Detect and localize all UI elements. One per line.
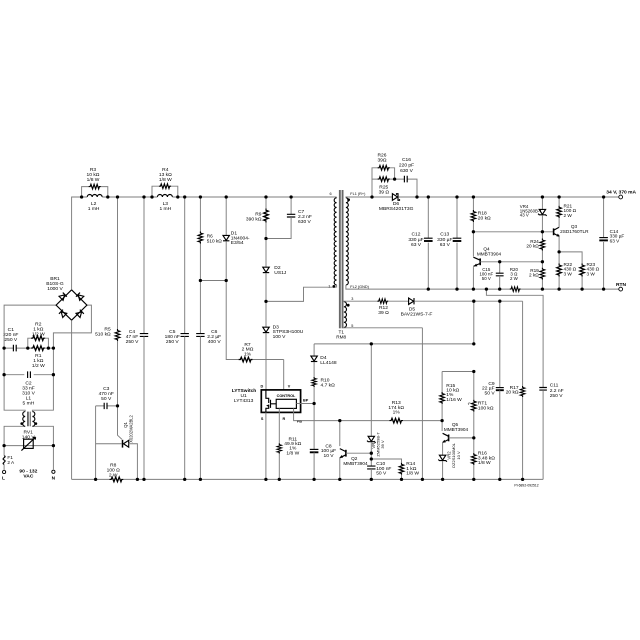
wire emitter node to R23 bbox=[559, 252, 582, 264]
transistor Q3 2SD1760TLR bbox=[553, 228, 555, 235]
thyristor Q1 X0202MA2BL2 bbox=[118, 406, 122, 439]
junction R9/C7 bottom bbox=[264, 237, 267, 240]
junction R6 bottom bbox=[199, 279, 202, 282]
svg-text:C11: C11 bbox=[550, 383, 559, 389]
svg-text:20 kΩ: 20 kΩ bbox=[526, 244, 539, 249]
bridge rectifier BR1 B10S-G 1000V bbox=[56, 290, 87, 320]
U1 internal MOSFET bbox=[266, 390, 276, 413]
svg-text:1/8 W: 1/8 W bbox=[478, 460, 491, 466]
U1 controller block bbox=[276, 399, 296, 408]
svg-text:2.2 nF: 2.2 nF bbox=[550, 388, 564, 394]
svg-text:1: 1 bbox=[328, 285, 330, 289]
junction C2 right bbox=[52, 373, 55, 376]
junction snubber left bbox=[370, 195, 373, 198]
junction FB line Q2 collector bbox=[338, 419, 341, 422]
capacitor C1 220nF bbox=[4, 347, 28, 349]
junction C4 on rail bbox=[142, 478, 145, 481]
resistor R5 510k bbox=[117, 197, 119, 329]
wire bus L3 to transformer pin 6 bbox=[178, 196, 337, 198]
wire L node up to choke bbox=[4, 426, 25, 445]
junction C9 on rail bbox=[498, 478, 501, 481]
wire clamp node to transformer pin 1 bbox=[266, 287, 337, 301]
svg-text:1%: 1% bbox=[393, 410, 401, 416]
svg-text:1/8 W: 1/8 W bbox=[159, 177, 172, 183]
phase dot bias winding bbox=[347, 304, 350, 307]
diode D4 LL4148 bbox=[313, 344, 315, 356]
svg-text:39Ω: 39Ω bbox=[377, 158, 386, 164]
transformer T1 core bbox=[339, 190, 341, 328]
svg-text:400 V: 400 V bbox=[208, 339, 222, 345]
svg-text:U1: U1 bbox=[240, 393, 247, 399]
svg-text:39 Ω: 39 Ω bbox=[378, 310, 389, 316]
junction D1 bottom bbox=[225, 279, 228, 282]
svg-text:2 kΩ: 2 kΩ bbox=[529, 273, 539, 278]
junction C9 top bbox=[498, 300, 501, 303]
svg-text:1 mH: 1 mH bbox=[88, 206, 100, 212]
svg-text:3 W: 3 W bbox=[587, 271, 596, 276]
junction C1 left bbox=[2, 346, 5, 349]
junction Q1 anode on bottom rail bbox=[136, 478, 139, 481]
svg-text:34 V, 370 mA: 34 V, 370 mA bbox=[606, 189, 636, 195]
svg-text:Q1: Q1 bbox=[123, 422, 128, 428]
svg-text:VAC: VAC bbox=[23, 474, 33, 480]
junction bus L3 right bbox=[176, 195, 179, 198]
resistor R15 10k 1% 1/16W bbox=[441, 372, 443, 393]
svg-text:LYT4313: LYT4313 bbox=[234, 398, 254, 404]
junction VR4 bottom bbox=[541, 230, 544, 233]
junction R24 bottom base line bbox=[541, 260, 544, 263]
junction RV1 left bbox=[2, 444, 5, 447]
svg-text:R: R bbox=[283, 417, 286, 421]
svg-text:2SD1760TLR: 2SD1760TLR bbox=[560, 229, 589, 234]
svg-text:L: L bbox=[2, 476, 5, 482]
wire bridge DC- down to bottom rail bbox=[71, 320, 73, 479]
capacitor C3 470nF 50V bbox=[96, 405, 118, 407]
wire N node up to choke bbox=[32, 426, 53, 445]
wire D1 junction down to R7 bbox=[226, 281, 238, 360]
svg-text:10 V: 10 V bbox=[323, 453, 334, 459]
resistor R10 4.7k bbox=[312, 377, 317, 387]
wire bias winding return to bottom rail bbox=[421, 328, 423, 480]
svg-text:3 W: 3 W bbox=[564, 271, 573, 276]
capacitor C4 47nF 250V bbox=[143, 197, 145, 334]
junction bus L2 left bbox=[80, 195, 83, 198]
svg-text:V: V bbox=[288, 385, 291, 389]
diode D2 US1J bbox=[265, 239, 267, 268]
wire R7 to U1 V pin bbox=[283, 360, 285, 390]
svg-text:390 kΩ: 390 kΩ bbox=[246, 216, 262, 222]
svg-text:C13: C13 bbox=[440, 232, 449, 238]
wire left column C2 to C1 bbox=[3, 348, 5, 375]
capacitor C9 22uF 50V bbox=[499, 301, 501, 387]
svg-text:39 Ω: 39 Ω bbox=[379, 189, 390, 195]
RTN terminal bbox=[619, 287, 623, 291]
svg-text:630 V: 630 V bbox=[298, 219, 312, 225]
transistor Q4 MMBT3904 bbox=[472, 232, 474, 257]
junction N column bbox=[52, 346, 55, 349]
primary return rail bbox=[72, 478, 543, 480]
wire R1R2 to N column and bridge AC2 bbox=[48, 305, 91, 348]
wire bridge DC+ up to bus bbox=[72, 197, 81, 290]
svg-text:N: N bbox=[52, 475, 56, 481]
wire Q4 base line bbox=[480, 261, 542, 263]
resistor R21 100ohm 2W bbox=[557, 195, 560, 198]
junction R22 on RTN rail bbox=[557, 287, 560, 290]
resistor R17 20k bbox=[522, 301, 524, 386]
svg-text:LYTSwitch: LYTSwitch bbox=[232, 388, 257, 394]
terminal L (AC line input) bbox=[3, 470, 6, 473]
junction bus L2 right bbox=[106, 195, 109, 198]
junction R17 on rail bbox=[521, 478, 524, 481]
wire R6 to D1 junction bbox=[200, 280, 226, 282]
capacitor C5 180nF 250V bbox=[184, 197, 186, 334]
svg-text:1/8 W: 1/8 W bbox=[286, 450, 299, 456]
svg-text:1/2 W: 1/2 W bbox=[32, 331, 45, 337]
resistor R22 430ohm 3W bbox=[558, 252, 560, 264]
wire choke left top to filter column bbox=[4, 375, 25, 412]
svg-text:5 mH: 5 mH bbox=[23, 400, 35, 406]
junction bus D1 column bbox=[225, 195, 228, 198]
wire FB line to R13 bbox=[340, 420, 390, 422]
thermistor RT1 100k bbox=[473, 372, 475, 400]
svg-text:250 V: 250 V bbox=[166, 339, 180, 345]
svg-text:330 µF: 330 µF bbox=[408, 237, 423, 243]
junction S pin on rail bbox=[264, 478, 267, 481]
junction C11 link on RTN rail bbox=[485, 287, 488, 290]
capacitor C10 100nF 50V bbox=[367, 466, 375, 469]
svg-text:1/16 W: 1/16 W bbox=[446, 397, 462, 403]
svg-text:1/8 W: 1/8 W bbox=[406, 471, 419, 477]
svg-text:140 V: 140 V bbox=[22, 434, 36, 440]
snubber R25 39ohm bbox=[372, 178, 395, 180]
junction R16 on rail bbox=[472, 478, 475, 481]
resistor R6 510k bbox=[199, 197, 201, 232]
resistor R20 3ohm 2W (in RTN rail) bbox=[510, 287, 521, 292]
svg-text:PI-6892-092512: PI-6892-092512 bbox=[514, 484, 538, 488]
svg-text:90 - 132: 90 - 132 bbox=[19, 468, 37, 474]
svg-text:FL1 (R+): FL1 (R+) bbox=[350, 192, 366, 196]
junction C15 top bbox=[498, 260, 501, 263]
resistor R8 100ohm 2W bbox=[109, 477, 123, 482]
capacitor C12 330uF 63V bbox=[427, 195, 430, 198]
wire bus L2 to L3 bbox=[108, 196, 152, 198]
svg-text:MMBT3904: MMBT3904 bbox=[343, 461, 368, 466]
svg-text:250 V: 250 V bbox=[4, 337, 18, 343]
junction bus C4 column bbox=[142, 195, 145, 198]
resistor R7 2M 1% bbox=[239, 357, 253, 362]
diode D3 STPS3H100U 100V bbox=[265, 301, 267, 327]
svg-text:1/2 W: 1/2 W bbox=[32, 363, 45, 369]
svg-text:20 kΩ: 20 kΩ bbox=[506, 390, 519, 396]
svg-text:RM8: RM8 bbox=[336, 335, 346, 340]
svg-text:10 V: 10 V bbox=[456, 451, 461, 460]
resistor R12 39ohm bbox=[377, 299, 388, 304]
svg-text:5: 5 bbox=[351, 324, 353, 328]
terminal N (AC neutral input) bbox=[52, 470, 55, 473]
svg-text:1%: 1% bbox=[244, 351, 252, 357]
junction R11 on rail bbox=[278, 478, 281, 481]
varistor RV1 140V bbox=[4, 445, 53, 447]
resistor R18 20k bbox=[472, 195, 475, 198]
svg-text:50 V: 50 V bbox=[485, 390, 496, 396]
capacitor C8 100uF 10V bbox=[313, 404, 315, 450]
wire U1 S pin to bottom rail bbox=[265, 412, 267, 479]
capacitor C6 2.2uF 400V bbox=[199, 281, 201, 334]
svg-text:2 W: 2 W bbox=[510, 276, 519, 281]
resistor R11 49.9k 1% 1/8W (R pin) bbox=[278, 408, 280, 443]
svg-text:FB: FB bbox=[297, 419, 302, 423]
junction bus R6 column bbox=[199, 195, 202, 198]
wire C3 left to cathode rail bbox=[95, 406, 97, 480]
junction R1R2 left bbox=[26, 346, 29, 349]
resistor R23 430ohm 3W bbox=[580, 263, 585, 276]
capacitor C14 330uF 63V bbox=[602, 195, 605, 198]
junction Q5 base node bbox=[472, 436, 475, 439]
junction bias rail tap bbox=[472, 300, 475, 303]
phase dot primary bbox=[333, 285, 336, 288]
svg-text:2 W: 2 W bbox=[109, 473, 118, 479]
junction bus L3 left bbox=[150, 195, 153, 198]
resistor R9 390k bbox=[265, 197, 267, 209]
svg-text:250 V: 250 V bbox=[126, 339, 140, 345]
svg-text:S: S bbox=[261, 417, 264, 421]
wire Q2 base to VR1 node bbox=[346, 452, 371, 454]
fuse F1 2A bbox=[3, 464, 5, 470]
wire R15 top link bbox=[442, 371, 474, 373]
junction C6 on rail bbox=[199, 478, 202, 481]
svg-text:BAV21WS-7-F: BAV21WS-7-F bbox=[401, 311, 433, 317]
svg-text:E3/54: E3/54 bbox=[231, 240, 244, 246]
IC U1 LYT4313 body bbox=[261, 390, 300, 413]
junction cathode node on bottom rail bbox=[94, 478, 97, 481]
svg-text:43 V: 43 V bbox=[520, 213, 529, 218]
junction C3 right / gate node bbox=[116, 404, 119, 407]
svg-text:63 V: 63 V bbox=[610, 238, 621, 243]
svg-text:39 V: 39 V bbox=[380, 440, 385, 449]
resistor R14 1k 1/8W bbox=[371, 459, 401, 463]
wire N terminal to RV1 node bbox=[52, 446, 54, 470]
junction bias return on rail bbox=[421, 478, 424, 481]
svg-text:1 mH: 1 mH bbox=[159, 206, 171, 212]
resistor R2 1k 1/2W (parallel branch) bbox=[28, 338, 49, 348]
zener VR2 DZ2S100M0L 10V bbox=[439, 455, 445, 460]
phase dot L1 right bbox=[35, 422, 38, 425]
junction Q4 emitter on RTN rail bbox=[472, 287, 475, 290]
svg-text:1/8 W: 1/8 W bbox=[87, 177, 100, 183]
output terminal 34V 370mA bbox=[619, 195, 623, 199]
resistor R4 13k 1/8W (parallel with L3) bbox=[152, 186, 178, 197]
junction VR1 to R14 branch bbox=[370, 457, 373, 460]
svg-text:MMBT3904: MMBT3904 bbox=[477, 251, 502, 256]
svg-text:MBRS4201T3G: MBRS4201T3G bbox=[379, 206, 414, 212]
junction bus R5 column bbox=[116, 195, 119, 198]
wire bias line down to bias rail bbox=[473, 301, 475, 344]
junction R18 bottom bbox=[472, 230, 475, 233]
svg-text:50 V: 50 V bbox=[482, 276, 491, 281]
resistor R24 20k bbox=[540, 239, 545, 251]
junction bus C7 column bbox=[289, 195, 292, 198]
junction R14 on rail bbox=[400, 478, 403, 481]
svg-text:100 kΩ: 100 kΩ bbox=[478, 406, 494, 412]
svg-text:220 pF: 220 pF bbox=[399, 163, 414, 169]
svg-text:250 V: 250 V bbox=[550, 393, 564, 399]
junction D6 output bbox=[415, 195, 418, 198]
svg-text:6: 6 bbox=[329, 192, 331, 196]
resistor R3 10k 1/8W (parallel with L2) bbox=[82, 187, 108, 197]
transformer T1 primary winding pin6-pin1 bbox=[334, 198, 336, 285]
junction R23 on RTN rail bbox=[580, 287, 583, 290]
wire N column C2 to R1 node bbox=[52, 348, 54, 375]
svg-text:MMBT3904: MMBT3904 bbox=[444, 427, 469, 432]
capacitor C7 2.2nF 630V bbox=[290, 197, 292, 214]
svg-text:C16: C16 bbox=[402, 157, 411, 163]
junction C15 on RTN rail bbox=[498, 287, 501, 290]
svg-text:630 V: 630 V bbox=[400, 168, 414, 174]
transformer T1 secondary winding FL1-FL2 bbox=[346, 198, 348, 285]
svg-text:50 V: 50 V bbox=[376, 471, 387, 477]
junction bus C5 column bbox=[183, 195, 186, 198]
junction C2 left bbox=[2, 373, 5, 376]
junction bias rail corner bbox=[472, 342, 475, 345]
junction C5 on rail bbox=[183, 478, 186, 481]
svg-text:20 kΩ: 20 kΩ bbox=[478, 215, 491, 221]
svg-text:1000 V: 1000 V bbox=[47, 286, 63, 292]
junction FB line to R15/Q5 bbox=[440, 419, 443, 422]
svg-text:RTN: RTN bbox=[616, 282, 627, 288]
transformer T1 bias winding pin3-pin5 bbox=[344, 302, 347, 328]
svg-text:US1J: US1J bbox=[274, 270, 287, 276]
bias rail wire bbox=[314, 343, 474, 345]
inductor L3 1mH bbox=[157, 195, 172, 198]
svg-text:4.7 kΩ: 4.7 kΩ bbox=[321, 382, 336, 388]
junction R1R2 right bbox=[47, 346, 50, 349]
svg-text:100 V: 100 V bbox=[273, 334, 287, 340]
common-mode choke L1 5mH bbox=[23, 412, 25, 427]
junction clamp node to primary bbox=[264, 300, 267, 303]
junction RV1 right bbox=[52, 444, 55, 447]
wire left column to bridge AC1 bbox=[4, 305, 56, 348]
junction C10 on rail bbox=[370, 478, 373, 481]
svg-text:t°: t° bbox=[468, 401, 471, 406]
capacitor C15 100nF 50V bbox=[499, 262, 501, 273]
junction VR2 on rail bbox=[441, 478, 444, 481]
junction Q3 emitter node bbox=[557, 250, 560, 253]
svg-text:510 kΩ: 510 kΩ bbox=[207, 239, 222, 244]
transistor Q2 MMBT3904 bbox=[339, 421, 341, 447]
snubber R26 39ohm bbox=[372, 168, 395, 197]
resistor R19 2k bbox=[540, 268, 545, 280]
svg-text:FL2 (GND): FL2 (GND) bbox=[350, 285, 369, 289]
inductor L2 1mH bbox=[87, 195, 102, 198]
svg-text:510 kΩ: 510 kΩ bbox=[95, 332, 111, 338]
svg-text:3: 3 bbox=[351, 297, 353, 301]
sense line R18 to Q3 base bbox=[473, 231, 553, 233]
phase dot L1 left bbox=[20, 422, 23, 425]
svg-text:330 µF: 330 µF bbox=[437, 237, 452, 243]
junction R19 on RTN rail bbox=[541, 287, 544, 290]
svg-text:2 A: 2 A bbox=[7, 460, 15, 465]
diode D6 MBRS4201T3G bbox=[372, 196, 392, 198]
diode D5 BAV21WS-7-F bbox=[409, 298, 414, 304]
output bus wire bbox=[417, 196, 619, 198]
wire Q5 base to RT1/R16 node bbox=[449, 437, 474, 439]
svg-text:C12: C12 bbox=[412, 232, 421, 238]
wire U1 FB pin bbox=[294, 408, 340, 420]
svg-text:50 V: 50 V bbox=[101, 396, 112, 402]
junction bus R9 column bbox=[264, 195, 267, 198]
svg-text:2 W: 2 W bbox=[564, 213, 573, 218]
svg-text:63 V: 63 V bbox=[411, 242, 422, 248]
svg-text:LL4148: LL4148 bbox=[320, 360, 337, 366]
junction C8 on rail bbox=[312, 478, 315, 481]
zener VR1 ZMM5259B-7 39V bbox=[370, 342, 373, 345]
svg-text:X0202MA2BL2: X0202MA2BL2 bbox=[129, 415, 134, 443]
zener VR4 1N5260B-T 43V bbox=[541, 195, 544, 198]
phase dot secondary bbox=[347, 198, 350, 201]
Y-capacitor C11 2.2nF 250V link from RTN rail bbox=[486, 289, 543, 387]
snubber C16 220pF 630V bbox=[395, 179, 417, 197]
capacitor C2 33nF bbox=[4, 374, 53, 376]
resistor R13 174k 1% bbox=[389, 418, 403, 423]
junction R15 top link bbox=[472, 370, 475, 373]
svg-text:63 V: 63 V bbox=[440, 242, 451, 248]
svg-text:BP: BP bbox=[303, 399, 309, 403]
transistor Q5 MMBT3904 bbox=[441, 421, 443, 431]
RTN rail wire bbox=[428, 288, 619, 290]
junction BP node bbox=[312, 402, 315, 405]
svg-text:CONTROL: CONTROL bbox=[277, 394, 296, 398]
junction VR1 to Q2 base bbox=[370, 452, 373, 455]
resistor R1 1k 1/2W bbox=[31, 346, 45, 351]
capacitor C13 330uF 63V bbox=[455, 195, 458, 198]
svg-text:310 V: 310 V bbox=[22, 390, 36, 396]
resistor R16 3.48k 1/8W bbox=[473, 438, 475, 453]
junction Q2 emitter on rail bbox=[338, 478, 341, 481]
wire choke right top to N column bbox=[32, 375, 53, 412]
junction R25/R26 right bbox=[393, 177, 396, 180]
diode D1 1N4004-E3/54 bbox=[225, 197, 227, 235]
wire U1 BP pin bbox=[296, 403, 314, 405]
svg-text:D: D bbox=[260, 385, 263, 389]
junction C14 on RTN rail bbox=[602, 287, 605, 290]
